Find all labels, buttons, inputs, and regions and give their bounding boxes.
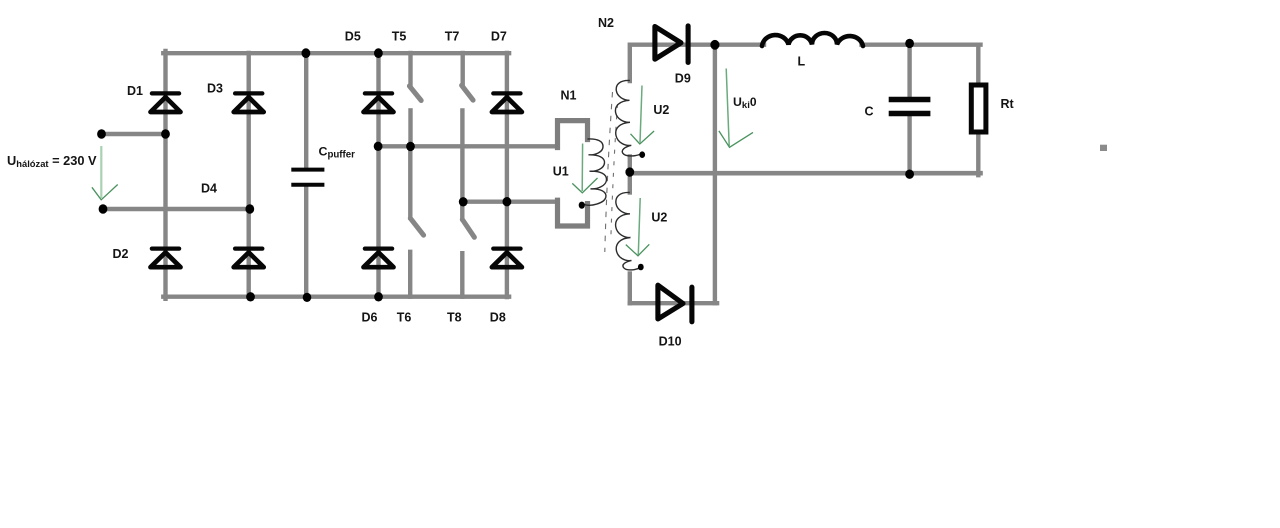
wire Cpuffer branch lower	[304, 187, 308, 298]
wire from output node to inductor	[715, 43, 764, 47]
transistor T6	[410, 146, 423, 296]
arrow Uhalozat input	[92, 146, 118, 200]
svg-text:D6: D6	[362, 310, 378, 324]
diode D4	[234, 249, 264, 268]
arrow U1	[572, 144, 597, 193]
resistor Rt	[971, 85, 986, 132]
wire bridge mid rail lower (to transformer)	[462, 199, 558, 203]
svg-text:U1: U1	[553, 164, 569, 178]
svg-text:D9: D9	[675, 71, 691, 85]
node input top	[97, 129, 106, 138]
transformer primary top bracket	[558, 121, 588, 148]
svg-text:U2: U2	[653, 103, 669, 117]
svg-text:N1: N1	[561, 88, 577, 102]
wire D5/D6 branch vertical	[376, 53, 380, 297]
svg-text:Uki0: Uki0	[733, 95, 757, 111]
capacitor C plates	[889, 100, 931, 114]
svg-text:T6: T6	[397, 310, 412, 324]
node mid rail T7/T8	[459, 197, 468, 206]
svg-text:N2: N2	[598, 16, 614, 30]
polarity dot secondary lower	[638, 264, 644, 271]
svg-text:D4: D4	[201, 182, 217, 196]
wire D1/D2 branch vertical	[163, 51, 167, 299]
inductor L	[762, 33, 863, 46]
diode D6	[364, 249, 394, 268]
transformer primary bottom bracket	[558, 200, 588, 226]
wire centre tap stub lower	[628, 173, 632, 192]
diode D5	[364, 93, 394, 112]
transformer core dashed line 1	[605, 92, 613, 252]
node mid rail D5/D6	[374, 142, 383, 151]
wire D3/D4 branch vertical	[246, 53, 250, 297]
wire centre tap stub upper	[628, 157, 632, 174]
node bottom rail Cpuffer	[303, 293, 312, 302]
node top rail Cpuffer	[302, 48, 311, 58]
arrow U2 lower	[626, 198, 650, 256]
wire bridge mid rail upper (to transformer)	[378, 144, 558, 148]
wire inductor to top-right corner	[862, 43, 981, 47]
svg-text:Rt: Rt	[1001, 97, 1015, 111]
wire top rail	[163, 51, 509, 55]
transistor T8	[462, 202, 474, 297]
wire capacitor branch upper	[907, 45, 911, 97]
node capacitor top	[905, 39, 914, 48]
svg-text:D1: D1	[127, 84, 143, 98]
svg-text:D10: D10	[659, 334, 682, 348]
secondary bottom wire to D10	[630, 301, 717, 305]
svg-text:C: C	[865, 105, 874, 119]
node top rail D5	[374, 48, 383, 58]
transformer secondary lower winding coil	[616, 192, 640, 270]
diode D3	[234, 93, 264, 112]
polarity dot secondary upper	[639, 151, 645, 158]
svg-text:T7: T7	[445, 29, 460, 43]
svg-text:T8: T8	[447, 310, 462, 324]
svg-text:D7: D7	[491, 29, 507, 43]
stray gray square mark	[1100, 145, 1107, 151]
transformer primary winding N1 coil	[584, 139, 607, 205]
svg-text:T5: T5	[392, 29, 407, 43]
diode D10	[658, 285, 692, 322]
node mid rail T5/T6	[406, 142, 415, 151]
svg-text:D8: D8	[490, 310, 506, 324]
transistor T7	[462, 53, 474, 202]
node bottom rail D4	[246, 292, 255, 301]
arrow U2 upper	[631, 86, 655, 145]
capacitor Cpuffer plates	[291, 170, 324, 185]
node input bottom	[99, 204, 108, 213]
arrow Uki0	[719, 69, 753, 148]
node centre tap	[625, 167, 634, 176]
diode D1	[151, 93, 181, 112]
node input bottom right	[245, 204, 254, 213]
diode D7	[492, 93, 522, 112]
wire rectifier output vertical (D9 to D10)	[713, 45, 717, 304]
secondary top wire to D9 and output node	[630, 45, 716, 81]
wire input bottom	[103, 207, 251, 211]
wire Cpuffer branch upper	[304, 53, 308, 168]
svg-text:D3: D3	[207, 82, 223, 96]
diode D9	[655, 26, 688, 63]
polarity dot primary	[579, 202, 585, 209]
wire output return rail (center tap rail)	[630, 171, 981, 176]
svg-text:D2: D2	[113, 247, 129, 261]
transformer secondary upper winding coil	[615, 80, 641, 156]
svg-text:Cpuffer: Cpuffer	[319, 145, 356, 161]
node D9 output	[710, 40, 719, 50]
svg-text:D5: D5	[345, 29, 361, 43]
svg-text:L: L	[798, 54, 806, 68]
node bottom rail D6	[374, 292, 383, 301]
diode D8	[492, 249, 522, 268]
wire capacitor branch lower	[907, 116, 911, 173]
wire right vertical below Rt	[976, 134, 980, 176]
wire input top	[102, 132, 167, 136]
node mid rail D7/D8	[503, 197, 512, 206]
transistor T5	[409, 53, 421, 146]
diode D2	[151, 249, 181, 268]
svg-text:U2: U2	[651, 210, 667, 224]
node capacitor bottom	[905, 170, 914, 179]
svg-text:Uhálózat = 230 V: Uhálózat = 230 V	[7, 153, 97, 169]
wire right vertical above Rt	[976, 45, 980, 84]
transformer core dashed line 2	[611, 104, 618, 240]
wire D7/D8 branch vertical	[505, 53, 509, 297]
wire bottom rail	[163, 295, 509, 299]
node input top right	[161, 129, 170, 138]
wire secondary bottom stub	[628, 274, 632, 304]
